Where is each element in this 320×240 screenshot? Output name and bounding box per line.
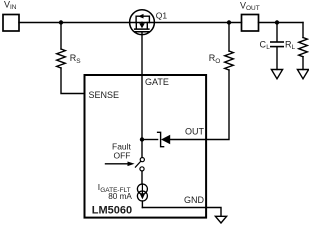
svg-text:OFF: OFF [114, 151, 131, 161]
label IGATE-FLT 80 mA [98, 182, 133, 201]
terminal VOUT [242, 15, 259, 32]
label Fault OFF [112, 142, 132, 161]
svg-text:L: L [266, 44, 270, 51]
svg-text:80 mA: 80 mA [108, 192, 132, 201]
label CL [260, 40, 271, 52]
wire CL bottom [276, 47, 278, 69]
wire Q1 gate to GATE pin [141, 32, 143, 140]
label RL [285, 40, 296, 52]
svg-text:SENSE: SENSE [89, 90, 120, 100]
node junction VIN/RS [59, 20, 63, 24]
current source IGATE-FLT [137, 184, 147, 201]
svg-text:Q1: Q1 [156, 10, 168, 20]
wire RL top [302, 23, 304, 38]
transistor Q1 [130, 10, 155, 35]
label VOUT [240, 1, 260, 12]
svg-text:GATE: GATE [145, 77, 169, 87]
wire GND rail [142, 208, 221, 217]
svg-text:GND: GND [184, 195, 205, 205]
label RS [70, 53, 82, 65]
svg-text:L: L [292, 44, 296, 51]
capacitor CL [271, 41, 283, 43]
wire Q1 to VOUT [142, 22, 242, 24]
svg-text:OUT: OUT [185, 127, 205, 137]
resistor RS [57, 49, 66, 68]
wire gate node to switch [141, 140, 143, 158]
terminal VIN [3, 15, 19, 32]
wire diode to gate node [144, 139, 158, 141]
wire current source to GND rail [141, 201, 143, 208]
svg-text:O: O [215, 58, 220, 65]
wire VOUT to RL [259, 22, 304, 24]
ground GND pin [215, 216, 226, 223]
IC LM5060 box [85, 75, 207, 218]
svg-text:OUT: OUT [246, 5, 260, 12]
wire VIN to Q1 [19, 22, 142, 24]
zener diode gate clamp [158, 132, 206, 146]
label RO [209, 53, 221, 65]
wire RO to OUT pin [206, 70, 229, 140]
arrow fault indicator [106, 162, 135, 167]
ground CL [271, 70, 282, 79]
wire CL top [276, 23, 278, 42]
wire RO top [228, 23, 230, 52]
node junction CL [275, 20, 279, 24]
wire RS top [60, 23, 62, 50]
wire switch to current source [141, 171, 143, 184]
ground RL [297, 70, 308, 79]
resistor RO [225, 51, 234, 70]
wire RS to SENSE pin [61, 68, 85, 94]
node gate/diode junction [140, 137, 144, 141]
switch fault [135, 158, 144, 171]
svg-text:IN: IN [10, 4, 17, 11]
svg-text:S: S [76, 58, 81, 65]
label VIN [4, 0, 17, 11]
wire RL bottom [302, 57, 304, 70]
node junction RO [227, 20, 231, 24]
resistor RL [299, 38, 308, 57]
svg-text:LM5060: LM5060 [92, 204, 132, 216]
